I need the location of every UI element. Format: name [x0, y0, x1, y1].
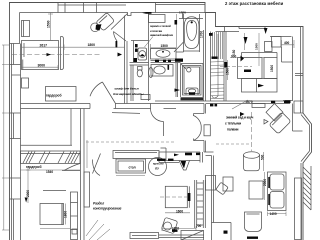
armchair tilted right room [216, 182, 229, 195]
bathtub inner egg [187, 21, 197, 41]
under stairs hatch [86, 220, 110, 240]
TV bedroom1 [116, 41, 118, 48]
top right inner face east [270, 27, 301, 114]
tv stand right room [206, 176, 216, 191]
svg-text:шкаф для белья: шкаф для белья [115, 86, 139, 90]
leader line band [232, 100, 248, 109]
corridor door living leaf [163, 122, 165, 137]
double door arc top [194, 116, 202, 129]
svg-text:1600: 1600 [176, 209, 183, 213]
left wall tick y113 [10, 112, 21, 114]
dim tub left [176, 14, 178, 48]
svg-text:500: 500 [261, 154, 265, 160]
counter diag to tub [174, 42, 184, 52]
dim right top y57 [230, 57, 265, 59]
double door arc bottom [194, 128, 202, 141]
small box bottom [72, 229, 77, 234]
dim vert x259 [258, 33, 260, 66]
svg-text:1500: 1500 [47, 20, 51, 28]
band continue to main wall [164, 104, 205, 109]
wall below doors [204, 141, 206, 153]
door stub top [194, 114, 205, 117]
entry arrow black [142, 12, 152, 14]
kitchen counter black marks upper [174, 154, 179, 157]
tub dim tick left [175, 20, 178, 25]
cylinder chair [244, 155, 260, 171]
wall right of bath [204, 13, 206, 102]
bath south dark band [181, 97, 204, 100]
arrow down dim [25, 198, 28, 203]
dim sofa left vertical [264, 172, 266, 200]
wardrobe top-left [22, 21, 30, 37]
sink dark [181, 161, 187, 169]
inner west wall bedroom1 [20, 44, 22, 240]
tub faucet dot [191, 21, 193, 23]
column bottom right [295, 178, 302, 240]
svg-text:1400: 1400 [270, 212, 277, 216]
diag corner wall bedroom1 [111, 14, 128, 30]
dim bed2 right [65, 204, 67, 225]
dark tick right wall [285, 100, 291, 103]
door bedroom1 leaf [114, 32, 127, 42]
leader label to washer [145, 37, 154, 48]
arrow cabinets [258, 84, 264, 88]
kitchen counter [159, 152, 200, 163]
armchair bottom round [245, 212, 262, 232]
ladder rungs [197, 183, 204, 225]
washbasin counter bath [151, 49, 177, 60]
centerline table dashed [160, 196, 190, 198]
table wedge dark [96, 24, 102, 30]
wc half wall [130, 63, 149, 66]
svg-text:кресло: кресло [153, 161, 164, 165]
stairs top dark [212, 57, 218, 59]
bookshelf living [84, 172, 90, 207]
headboard shelf line [43, 190, 66, 192]
shower drain circle [187, 68, 191, 72]
dim wardrobe bottom [21, 169, 81, 171]
toilet hall tank [138, 67, 143, 71]
dining table [116, 159, 146, 173]
shower partition [176, 63, 178, 98]
stair treads upper vertical [211, 32, 225, 99]
arrow down x265 [264, 28, 268, 34]
coffee table [249, 181, 263, 199]
dim line 1500 [151, 47, 177, 49]
svg-text:2670: 2670 [246, 100, 253, 104]
dim x87 vertical [86, 140, 88, 168]
shower outer [181, 64, 204, 98]
cabinet top line [242, 53, 278, 58]
arrow down tr [244, 37, 248, 44]
faucet blobs hall [135, 44, 138, 47]
wardrobe front line [21, 144, 73, 146]
left wall tick y199 [10, 198, 21, 200]
south band right of door [114, 104, 164, 109]
stairs east wall [224, 32, 226, 102]
label under armchair [247, 237, 258, 239]
lower right box [212, 223, 232, 240]
svg-text:2 этаж расстановка мебели: 2 этаж расстановка мебели [225, 1, 284, 6]
bed bedroom1 surface [22, 41, 59, 70]
wardrobe hanger hatch [23, 152, 80, 164]
door stub bottom [194, 139, 205, 141]
window tick bath top [156, 3, 206, 13]
shower inner [181, 64, 202, 96]
kitchen sink V [179, 161, 190, 171]
dim vertical x50 [48, 13, 53, 41]
sideboard corridor [113, 151, 159, 159]
svg-text:и полочка: и полочка [150, 30, 163, 33]
svg-text:1540: 1540 [46, 170, 53, 174]
shelf above corridor band [141, 95, 150, 100]
svg-text:700: 700 [196, 224, 202, 228]
cabinet rowA [238, 58, 263, 79]
top right window band [239, 27, 265, 29]
svg-text:1700: 1700 [179, 11, 186, 15]
round table top [91, 23, 100, 32]
left wall tick y138 [10, 138, 21, 140]
svg-text:1500: 1500 [226, 68, 230, 75]
bedroom2 niche wall [70, 109, 72, 146]
bathtub niche [176, 14, 200, 52]
small box tr1 [265, 42, 273, 52]
stair run arrow [212, 34, 218, 98]
hall niche lines [131, 41, 149, 63]
X box bottom [181, 231, 204, 240]
svg-text:1700: 1700 [199, 31, 203, 38]
jamb box [204, 125, 210, 136]
armchair top rotated [96, 12, 115, 31]
left wall tick y178 [10, 177, 21, 179]
dim line y174 dining [116, 175, 145, 177]
inner top wall left [20, 13, 149, 16]
wardrobe band bedroom2 [21, 151, 81, 164]
bed headboard [61, 37, 64, 70]
dim table y142 right [216, 143, 250, 145]
stair treads lower horizontal [211, 62, 225, 99]
chaise label kitchen [172, 230, 178, 232]
kitchen table [165, 186, 187, 207]
corridor south band [155, 101, 290, 104]
svg-text:3000: 3000 [38, 63, 46, 67]
svg-text:1500: 1500 [161, 44, 169, 48]
flag triangle [264, 120, 268, 125]
svg-text:Раздел: Раздел [93, 201, 104, 205]
dim cylinder right [263, 152, 265, 171]
band labels bath [155, 60, 159, 62]
svg-text:2617: 2617 [40, 43, 48, 47]
door arc living west [93, 154, 101, 176]
window sill line top [58, 3, 126, 13]
shower tray dark [189, 92, 195, 94]
dim line y67 [22, 65, 59, 70]
inner left wall top corner [10, 13, 20, 44]
washer dark [140, 54, 145, 56]
kitchen counter right edge [200, 152, 203, 163]
svg-text:стол: стол [129, 165, 136, 169]
dim 400 line [282, 40, 295, 48]
shower tray [186, 88, 198, 95]
window tick top 2 [83, 3, 85, 13]
bay inner line [301, 115, 310, 240]
wc basin dark bar [168, 65, 170, 70]
left wall tick y75 [12, 74, 21, 76]
window tick top 1 [64, 3, 66, 13]
dark marks and tiny texts [25, 11, 291, 239]
shelf column bedroom2 [71, 192, 78, 240]
dining chair circle [149, 158, 167, 176]
svg-text:ЛУ: ЛУ [155, 166, 159, 170]
svg-text:1500: 1500 [255, 43, 259, 50]
hall/bath wall [148, 13, 150, 102]
wardrobe door arc [62, 164, 80, 171]
dim vertical x227 [227, 60, 229, 80]
nightstand [22, 78, 29, 88]
svg-text:для верхней одежды: для верхней одежды [113, 92, 144, 96]
window tick right [295, 74, 303, 76]
mirror cabinet bath [149, 15, 166, 23]
right corridor wall [212, 156, 214, 223]
tilted chair kitchen [161, 217, 177, 233]
dim vertical bedroom2 [26, 168, 31, 203]
sofa armrest darks [268, 177, 270, 188]
door bedroom2 leaf [102, 82, 115, 104]
left wall sill lines [13, 44, 15, 240]
ladder rails [195, 180, 206, 228]
black bars on band [271, 101, 275, 103]
dim bath top [150, 44, 152, 52]
svg-text:2000: 2000 [26, 190, 30, 197]
bathroom top inner ledge [149, 13, 206, 19]
dresser bedroom1 [46, 87, 77, 102]
svg-text:полами: полами [227, 128, 238, 132]
bath mid band [151, 61, 181, 63]
hatch strip right wall [303, 166, 311, 210]
washbasin oval [156, 50, 170, 58]
svg-text:1870: 1870 [172, 227, 179, 231]
dark ticks corridor band [210, 104, 213, 107]
column right [282, 47, 293, 62]
bed pillows line [23, 43, 24, 70]
svg-text:зеркало с полкой: зеркало с полкой [150, 24, 171, 28]
south wall band bedroom1 [21, 104, 91, 109]
dim line living dashed [86, 141, 175, 143]
bed bedroom2 [40, 204, 62, 225]
svg-text:1800: 1800 [88, 43, 96, 47]
wc basin counter [151, 65, 173, 77]
corridor door living arc [151, 109, 164, 122]
small box tr2 [272, 37, 282, 48]
washing machine [138, 48, 147, 60]
kitchen counter black marks lower [157, 159, 166, 161]
door bedroom1 arc [114, 32, 118, 42]
line above bed bottom [40, 228, 70, 230]
svg-text:конструирование: конструирование [93, 207, 122, 211]
arrow centerline left [47, 53, 52, 56]
cabinet rowB [264, 58, 277, 79]
sofa right room [268, 172, 287, 211]
inner left wall line [11, 44, 13, 240]
stairs wall label [224, 62, 227, 68]
bathtub outer egg [184, 17, 199, 49]
bedroom2 east wall [81, 109, 85, 240]
partition below [131, 65, 133, 101]
dim table bottom [165, 212, 190, 214]
dash y66 right [220, 66, 252, 68]
svg-text:150: 150 [232, 49, 236, 55]
corridor lower line [112, 112, 140, 115]
radiator box right [294, 101, 303, 113]
stairs west line [210, 32, 212, 102]
cabinet rowC [242, 79, 278, 93]
svg-text:зимний сад и кауч: зимний сад и кауч [226, 116, 254, 120]
centerline y54 dashed [12, 54, 102, 56]
arrow y57 [241, 56, 245, 62]
faucet dot basin [162, 51, 164, 53]
lower box label [224, 231, 228, 234]
long shelf bottom [130, 233, 159, 239]
outside dim line left [2, 45, 10, 230]
black square hall [134, 58, 138, 62]
wall bedroom1/hall [125, 16, 128, 104]
svg-text:с тёплыми: с тёплыми [225, 122, 241, 126]
dim kitchen bottom [162, 227, 196, 232]
svg-text:1500: 1500 [270, 65, 274, 72]
side table right room [223, 177, 233, 191]
cabinet label dark [244, 70, 251, 73]
svg-text:1800: 1800 [63, 211, 67, 218]
dim vert x244 [244, 33, 246, 50]
svg-text:гардероб: гардероб [46, 94, 62, 98]
dim sofa bottom [268, 212, 287, 217]
arrow centerline right end [118, 53, 123, 57]
bottom wall kitchen [159, 235, 204, 238]
centerline right room [251, 112, 253, 151]
diamond table [266, 104, 283, 122]
wall below band right room [204, 104, 206, 114]
top right inner wall [216, 27, 240, 32]
dim chain y47 [22, 45, 125, 51]
wall band to right [204, 152, 214, 156]
kitchen door arc [161, 148, 167, 161]
toilet hall bowl [137, 70, 142, 77]
wc basin oval [154, 66, 165, 74]
window tick top 3 [96, 3, 98, 13]
wc toilet [149, 68, 153, 78]
chaise rotated [269, 112, 291, 134]
table dim rot black [188, 193, 191, 201]
svg-text:2000: 2000 [263, 179, 267, 186]
svg-text:гардероб: гардероб [26, 165, 42, 169]
tick right low [283, 100, 293, 102]
corner cabinet right room [293, 104, 303, 132]
shower partition blob [175, 89, 181, 92]
svg-text:навесной шкафчик: навесной шкафчик [150, 33, 174, 37]
dark arrow right centerline [240, 112, 245, 116]
shelf below band [252, 104, 265, 108]
left wall tick y64 [10, 64, 21, 66]
door bedroom2 arc [90, 82, 102, 96]
svg-text:400: 400 [284, 41, 290, 45]
